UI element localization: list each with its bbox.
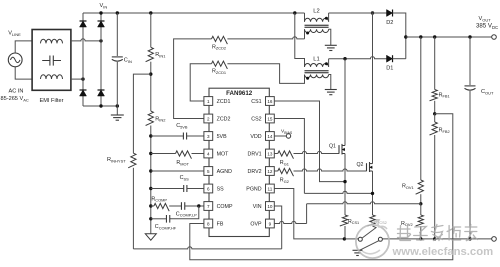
wire RINHYST to VIN pin bottom route	[133, 168, 281, 249]
label RZCD1	[212, 69, 226, 75]
junction diode output	[404, 35, 407, 38]
svg-text:14: 14	[267, 134, 273, 139]
op-amp U1 FAN9612 body	[209, 88, 269, 236]
svg-text:COMP: COMP	[217, 204, 233, 210]
junction FB tap	[433, 112, 436, 115]
resistor RFB1	[430, 37, 438, 114]
pin label CS1	[251, 99, 261, 105]
inductor L2 aux winding	[305, 29, 329, 32]
pin label ZCD2	[217, 117, 231, 123]
wire RZCD2 to ZCD2 pin	[174, 39, 212, 119]
junction AGND MOT	[149, 152, 152, 155]
wire rail branch to L1 primary	[295, 13, 305, 67]
node VLINE label	[8, 31, 21, 37]
junction output ROV1	[419, 35, 422, 38]
resistor RFB2	[430, 114, 438, 239]
resistor ROV1	[416, 37, 424, 204]
pin label ZCD1	[217, 99, 231, 105]
capacitor COUT	[465, 37, 476, 239]
junction COMP node	[197, 204, 200, 207]
node L2 primary phase dot	[325, 17, 328, 20]
diode bridge top-right	[98, 21, 105, 27]
junction L1 node Q1 drain	[343, 57, 346, 60]
label RCS2	[376, 219, 387, 225]
diode D2	[387, 10, 393, 17]
pin 1 box	[204, 97, 213, 106]
wire AGND to pin5	[151, 170, 204, 172]
svg-text:RIN2: RIN2	[155, 116, 166, 122]
svg-text:VDD: VDD	[250, 134, 261, 140]
terminal VOUT	[492, 35, 497, 40]
diode bridge bottom-left	[80, 90, 87, 96]
node L2 aux phase dot	[306, 32, 309, 35]
wire CS1 to Q1 source	[274, 101, 345, 182]
capacitor C5VB	[151, 133, 204, 140]
label RCOMP	[151, 196, 167, 202]
label CCOMP_HF	[155, 224, 177, 230]
label CCOMP_LP	[176, 211, 197, 217]
junction AGND CHF	[149, 217, 152, 220]
pin 10 box	[266, 202, 275, 211]
core L2	[305, 25, 329, 27]
svg-text:MOT: MOT	[217, 152, 230, 158]
svg-text:VLINE: VLINE	[8, 31, 21, 37]
svg-text:L2: L2	[313, 9, 319, 15]
ground L2 aux winding	[325, 45, 337, 50]
svg-text:13: 13	[267, 151, 273, 156]
svg-text:16: 16	[267, 99, 273, 104]
node L1 primary phase dot	[325, 62, 328, 65]
junction AGND 5VB	[149, 134, 152, 137]
junction CS1 Q1 source	[343, 180, 346, 183]
junction rail CIN	[116, 11, 119, 14]
EMI filter box	[32, 30, 71, 91]
wire AC source bottom to EMI filter	[15, 67, 32, 79]
svg-text:COUT: COUT	[481, 89, 494, 95]
resistor RZCD2	[212, 36, 228, 44]
wire EMI bottom output to bridge left leg	[71, 78, 83, 80]
svg-text:VIN: VIN	[100, 3, 108, 9]
pin 3 box	[204, 132, 213, 141]
svg-text:AC IN: AC IN	[9, 88, 24, 94]
resistor RG1	[274, 151, 293, 159]
svg-text:6: 6	[207, 186, 210, 191]
label L1	[313, 57, 319, 63]
svg-text:L1: L1	[313, 57, 319, 63]
wire VDD to VBIAS	[274, 135, 286, 137]
svg-text:Q2: Q2	[357, 162, 364, 168]
pin 14 box	[266, 132, 275, 141]
pin label SS	[217, 187, 225, 193]
inductor L1 primary winding	[305, 64, 329, 67]
capacitor CSS	[151, 185, 204, 192]
ground L1 aux winding	[325, 90, 337, 95]
svg-text:AGND: AGND	[217, 169, 232, 175]
transistor Q1	[329, 144, 345, 155]
wire RZCD1 to ZCD1 pin	[190, 64, 211, 101]
inductor L1 aux winding	[305, 75, 329, 78]
label D1	[386, 66, 393, 72]
pin 15 box	[266, 114, 275, 123]
node sense loop terminal B	[378, 237, 382, 241]
junction bottom bus CIN	[116, 104, 119, 107]
junction rail L1 branch	[293, 11, 296, 14]
label ROV1	[402, 184, 414, 190]
wire bridge left leg	[82, 13, 84, 106]
resistor RCS1	[340, 215, 348, 239]
wire Q2 drain	[372, 13, 374, 164]
wire L2 aux to ground	[329, 29, 331, 45]
resistor RINHYST	[128, 153, 136, 168]
label RG1	[280, 160, 289, 166]
junction AGND SS	[149, 187, 152, 190]
wire RCS2 to loop terminal	[362, 226, 376, 238]
svg-text:ZCD1: ZCD1	[217, 99, 231, 105]
pin 4 box	[204, 149, 213, 158]
label RG2	[280, 178, 289, 184]
svg-text:DRV2: DRV2	[248, 169, 262, 175]
svg-text:CCOMP,HF: CCOMP,HF	[155, 224, 177, 230]
wire RZCD2 to L2 aux winding	[227, 29, 304, 39]
svg-text:SS: SS	[217, 187, 225, 193]
junction return COUT	[468, 237, 471, 240]
pin 6 box	[204, 184, 213, 193]
wire bridge bottom bus	[83, 105, 117, 107]
svg-text:VIN: VIN	[253, 204, 262, 210]
svg-text:3: 3	[207, 134, 210, 139]
svg-text:8: 8	[207, 221, 210, 226]
junction OVP tap	[419, 202, 422, 205]
svg-text:CSS: CSS	[180, 175, 190, 181]
pin label AGND	[217, 169, 232, 175]
label EMI Filter	[40, 98, 64, 104]
svg-text:4: 4	[207, 151, 210, 156]
wire CS2 to Q2 source	[274, 119, 372, 194]
svg-text:CCOMP,LP: CCOMP,LP	[176, 211, 197, 217]
svg-text:C5VB: C5VB	[176, 123, 188, 129]
junction return RFB2	[433, 237, 436, 240]
EMI filter bottom inductor	[41, 75, 63, 79]
wire ground bus to sense loop	[344, 238, 358, 240]
pin label 5VB	[217, 134, 227, 140]
label FAN9612	[226, 90, 253, 97]
svg-text:EMI Filter: EMI Filter	[40, 98, 64, 104]
wire AC source top to EMI filter	[15, 41, 32, 53]
node sense loop terminal A	[358, 237, 362, 241]
junction bridge right leg AC node	[99, 39, 102, 42]
wire RG2 to Q2 gate	[294, 169, 367, 171]
wire Q2 source	[372, 171, 374, 215]
pin 7 box	[204, 202, 213, 211]
label CSS	[180, 175, 190, 181]
pin label OVP	[250, 222, 262, 228]
svg-text:Q1: Q1	[329, 144, 336, 150]
svg-text:RFB2: RFB2	[439, 128, 450, 134]
label RFB2	[439, 128, 450, 134]
wire Q1 source	[344, 154, 346, 216]
ground bridge/CIN	[111, 106, 124, 120]
junction rail RIN1	[149, 11, 152, 14]
svg-text:FAN9612: FAN9612	[226, 90, 253, 97]
pin label COMP	[217, 204, 233, 210]
resistor ROV2	[416, 204, 424, 239]
diode D1	[387, 55, 393, 62]
label RINHYST	[107, 157, 126, 163]
label RCS1	[348, 219, 359, 225]
label L2	[313, 9, 319, 15]
pin 5 box	[204, 167, 213, 176]
svg-text:FB: FB	[217, 222, 224, 228]
wire OVP tap to OVP pin	[274, 202, 421, 224]
svg-text:RMOT: RMOT	[176, 160, 189, 166]
pin label PGND	[246, 187, 261, 193]
svg-text:DRV1: DRV1	[248, 152, 262, 158]
pin 2 box	[204, 114, 213, 123]
pin label DRV2	[248, 169, 262, 175]
svg-text:12: 12	[267, 169, 273, 174]
svg-text:RZCD1: RZCD1	[212, 69, 226, 75]
svg-text:RG2: RG2	[280, 178, 289, 184]
label RZCD2	[212, 44, 226, 50]
core L1	[305, 71, 329, 73]
resistor RZCD1	[212, 61, 228, 69]
pin 13 box	[266, 149, 275, 158]
wire L2 primary to D2	[329, 13, 387, 22]
label D2	[386, 20, 393, 26]
pin label CS2	[251, 117, 261, 123]
transistor Q2	[357, 162, 373, 172]
wire AGND bus	[150, 126, 152, 234]
wire RZCD1 to L1 aux winding	[227, 64, 304, 84]
label C5VB	[176, 123, 188, 129]
svg-text:11: 11	[268, 186, 273, 191]
svg-text:10: 10	[267, 204, 273, 209]
junction return ROV2	[419, 237, 422, 240]
pin label VIN	[253, 204, 262, 210]
label COUT	[481, 89, 494, 95]
label 85-265 VAC	[1, 96, 29, 102]
svg-text:VOUT: VOUT	[479, 16, 492, 22]
resistor RCOMP	[151, 203, 182, 211]
inductor L2 primary winding	[305, 18, 329, 21]
pin 9 box	[266, 219, 275, 228]
label ROV2	[401, 221, 413, 227]
svg-text:RIN1: RIN1	[155, 52, 166, 58]
junction rail L2/D2 node	[371, 11, 374, 14]
terminal VBIAS	[286, 134, 290, 138]
pin 8 box	[204, 219, 213, 228]
label RIN1	[155, 52, 166, 58]
svg-text:ZCD2: ZCD2	[217, 117, 231, 123]
wire divider tap to RINHYST	[133, 74, 150, 153]
svg-text:CIN: CIN	[124, 58, 132, 64]
svg-text:CS1: CS1	[251, 99, 261, 105]
svg-text:D2: D2	[386, 20, 393, 26]
svg-text:ROV1: ROV1	[402, 184, 414, 190]
junction output RFB1	[433, 35, 436, 38]
junction rail right leg	[99, 11, 102, 14]
wire L1 primary to D1	[329, 57, 387, 67]
junction AGND COMP	[149, 204, 152, 207]
resistor RMOT	[151, 151, 204, 159]
AC source V_LINE	[8, 53, 22, 67]
wire FB tap to FB pin	[190, 114, 453, 260]
wire Q1 drain	[344, 59, 346, 146]
svg-text:OVP: OVP	[250, 222, 262, 228]
resistor RCS2	[367, 215, 375, 226]
capacitor CIN	[112, 13, 123, 106]
diode bridge bottom-right	[98, 90, 105, 96]
junction CS2 Q2 source	[371, 192, 374, 195]
svg-text:RCOMP: RCOMP	[151, 196, 167, 202]
junction output COUT	[468, 35, 471, 38]
capacitor CCOMP_HF	[151, 206, 199, 223]
pin label FB	[217, 222, 224, 228]
svg-text:RFB1: RFB1	[439, 92, 450, 98]
pin label VDD	[250, 134, 261, 140]
label AC IN	[9, 88, 24, 94]
svg-text:PGND: PGND	[246, 187, 261, 193]
EMI filter X-capacitor	[42, 56, 61, 66]
wire EMI top output to bridge right leg	[71, 39, 101, 41]
svg-text:7: 7	[207, 204, 210, 209]
resistor RIN1	[146, 13, 154, 111]
svg-text:5VB: 5VB	[217, 134, 227, 140]
label 385 VDC	[476, 23, 498, 30]
pin 12 box	[266, 167, 275, 176]
svg-text:1: 1	[207, 99, 210, 104]
wire RG1 to Q1 gate	[294, 151, 340, 153]
wire output rail	[406, 36, 494, 38]
junction AGND pin5	[149, 169, 152, 172]
wire D1 to output node	[393, 58, 406, 60]
wire PGND to ground bus	[274, 189, 344, 239]
EMI filter top inductor	[41, 39, 63, 43]
wire return bus	[382, 238, 494, 240]
pin label MOT	[217, 152, 230, 158]
capacitor CCOMP_LP	[181, 202, 203, 210]
wire bridge right leg	[100, 13, 102, 106]
ground sense loop	[353, 250, 363, 255]
svg-text:2: 2	[207, 116, 210, 121]
watermark elecfans logo and text	[356, 220, 493, 258]
label RFB1	[439, 92, 450, 98]
resistor RG2	[274, 168, 293, 176]
wire VIN rail	[83, 12, 305, 14]
wire L1 aux to ground	[329, 75, 331, 90]
pin 16 box	[266, 97, 275, 106]
label VBIAS	[281, 129, 293, 135]
svg-text:15: 15	[267, 116, 273, 121]
wire VIN rail to L2 primary	[304, 13, 306, 22]
pin label DRV1	[248, 152, 262, 158]
svg-text:D1: D1	[386, 66, 393, 72]
svg-text:RINHYST: RINHYST	[107, 157, 126, 163]
diode bridge top-left	[80, 21, 87, 27]
svg-text:CS2: CS2	[251, 117, 261, 123]
svg-text:5: 5	[207, 169, 210, 174]
junction bottom bus right leg	[99, 104, 102, 107]
pin 11 box	[266, 184, 275, 193]
label VOUT	[479, 16, 492, 22]
label RIN2	[155, 116, 166, 122]
junction RIN divider tap	[149, 72, 152, 75]
terminal VOUT return	[492, 237, 497, 242]
ground AGND	[145, 234, 156, 240]
junction bridge left leg AC node	[81, 77, 84, 80]
resistor RIN2	[146, 111, 154, 125]
svg-text:9: 9	[269, 221, 272, 226]
svg-text:RZCD2: RZCD2	[212, 44, 226, 50]
svg-text:85-265 VAC: 85-265 VAC	[1, 96, 29, 102]
wire loop terminal B to ground	[360, 241, 379, 251]
svg-text:RG1: RG1	[280, 160, 289, 166]
label CIN	[124, 58, 132, 64]
node L1 aux phase dot	[306, 77, 309, 80]
label VIN	[100, 3, 108, 9]
label RMOT	[176, 160, 189, 166]
wire D2 to output node	[393, 13, 406, 59]
svg-text:www.elecfans.com: www.elecfans.com	[392, 246, 494, 258]
junction ground bus RCS1	[343, 237, 346, 240]
